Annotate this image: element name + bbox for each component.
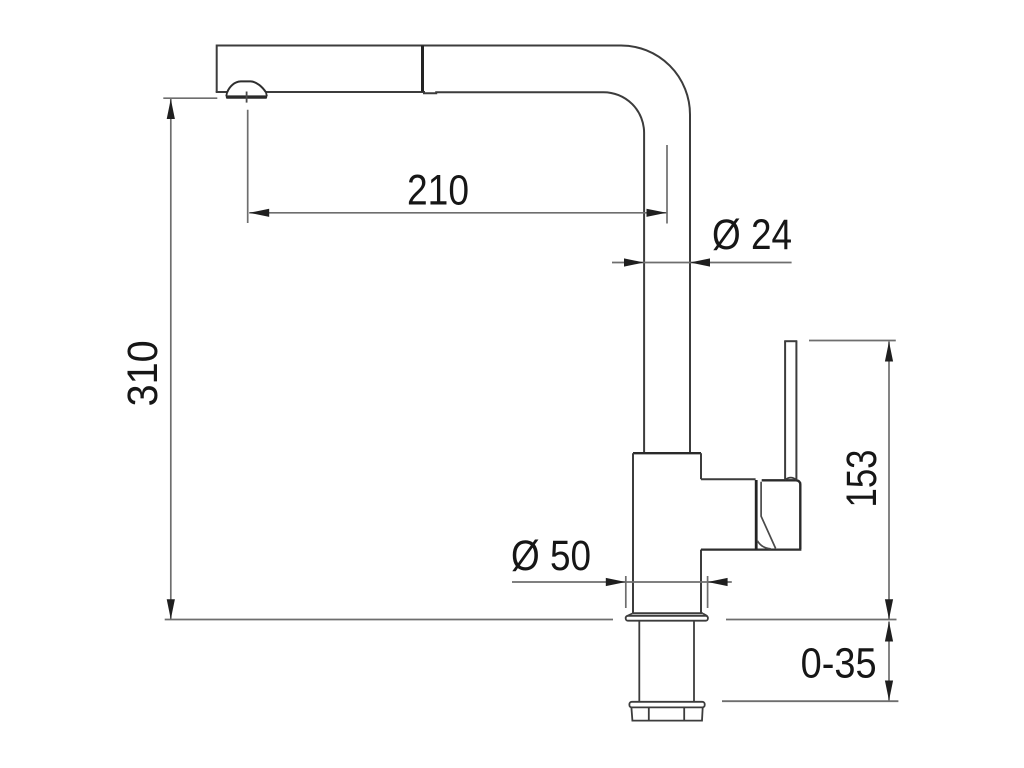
dim d50 arrow right — [708, 578, 728, 586]
dim d50 arrow left — [606, 578, 626, 586]
dim 310 arrow down — [167, 599, 175, 619]
cartridge bottom arc — [757, 541, 770, 549]
dim 0-35 line — [888, 622, 890, 701]
nut body — [631, 707, 702, 720]
dim d50 line — [512, 581, 732, 583]
shank left edge — [638, 621, 640, 702]
body bottom edge — [632, 612, 703, 614]
dim 310 arrow up — [167, 99, 175, 119]
svg-text:153: 153 — [838, 450, 886, 508]
faucet spout bottom edge left of aerator — [216, 91, 228, 93]
body right edge lower — [700, 550, 702, 614]
dim 310 top extension line — [163, 97, 217, 99]
dim d24 line — [612, 262, 792, 264]
dim d24 arrow at left pipe edge — [624, 258, 644, 266]
handle lever bottom joint arc — [785, 478, 796, 480]
dim d50 extension line right — [707, 576, 709, 608]
svg-text:Ø 50: Ø 50 — [511, 532, 591, 580]
cartridge separation thick line — [755, 480, 758, 550]
flange plate — [626, 616, 708, 621]
dim 210 arrow right — [647, 209, 667, 217]
dim 153 arrow down — [885, 599, 893, 619]
dim 210 extension line (aerator center) — [247, 110, 249, 223]
shank right edge — [693, 621, 695, 702]
aerator center tick — [246, 92, 248, 103]
handle lever right edge — [795, 341, 797, 480]
dim 210 arrow left — [249, 209, 269, 217]
aerator side left — [226, 92, 227, 97]
faucet spout tip left edge — [216, 45, 218, 93]
svg-text:Ø 24: Ø 24 — [712, 211, 792, 259]
countertop line left (310 bottom extension) — [165, 619, 613, 621]
body right edge upper — [700, 453, 702, 479]
cartridge body outline — [762, 480, 801, 549]
flange bevel right — [703, 614, 707, 617]
body top edge — [633, 452, 701, 454]
dim 0-35 arrow up — [885, 622, 893, 642]
nut top band — [629, 702, 704, 708]
faucet spout bottom edge with joint step + inner bend + pipe left edge — [266, 92, 644, 452]
handle lever top cap — [784, 340, 797, 342]
svg-text:210: 210 — [407, 167, 469, 215]
dim d50 extension line left — [625, 576, 627, 608]
dim 153 line — [888, 342, 890, 620]
faucet spout outer outline (top edge + outer bend + pipe right edge) — [217, 46, 690, 453]
handle lever left edge — [784, 341, 786, 480]
countertop line right — [726, 619, 897, 621]
svg-text:0-35: 0-35 — [801, 639, 877, 687]
dim 210 extension line (pipe center) — [666, 145, 668, 224]
handle mount / cartridge bottom edge — [701, 548, 801, 550]
aerator base bar — [226, 95, 267, 98]
aerator dome — [227, 81, 266, 92]
handle mount top edge — [701, 478, 756, 480]
flange bevel left — [627, 614, 632, 617]
dim 310 vertical line — [170, 99, 172, 619]
nut facet line left — [648, 707, 650, 720]
aerator side right — [266, 92, 267, 97]
dim 0-35 arrow down — [885, 681, 893, 701]
svg-text:310: 310 — [119, 340, 167, 406]
body left edge — [632, 453, 634, 613]
nut facet line right — [683, 707, 685, 720]
pull-out head joint line — [421, 46, 424, 92]
dim d24 arrow at right pipe edge — [690, 258, 710, 266]
dim 153 top extension line — [809, 340, 896, 342]
dim 153 arrow up — [885, 342, 893, 362]
dim 210 line — [249, 212, 666, 214]
cartridge inner taper line — [761, 482, 776, 549]
lower limit line right (0-35) — [722, 700, 898, 702]
